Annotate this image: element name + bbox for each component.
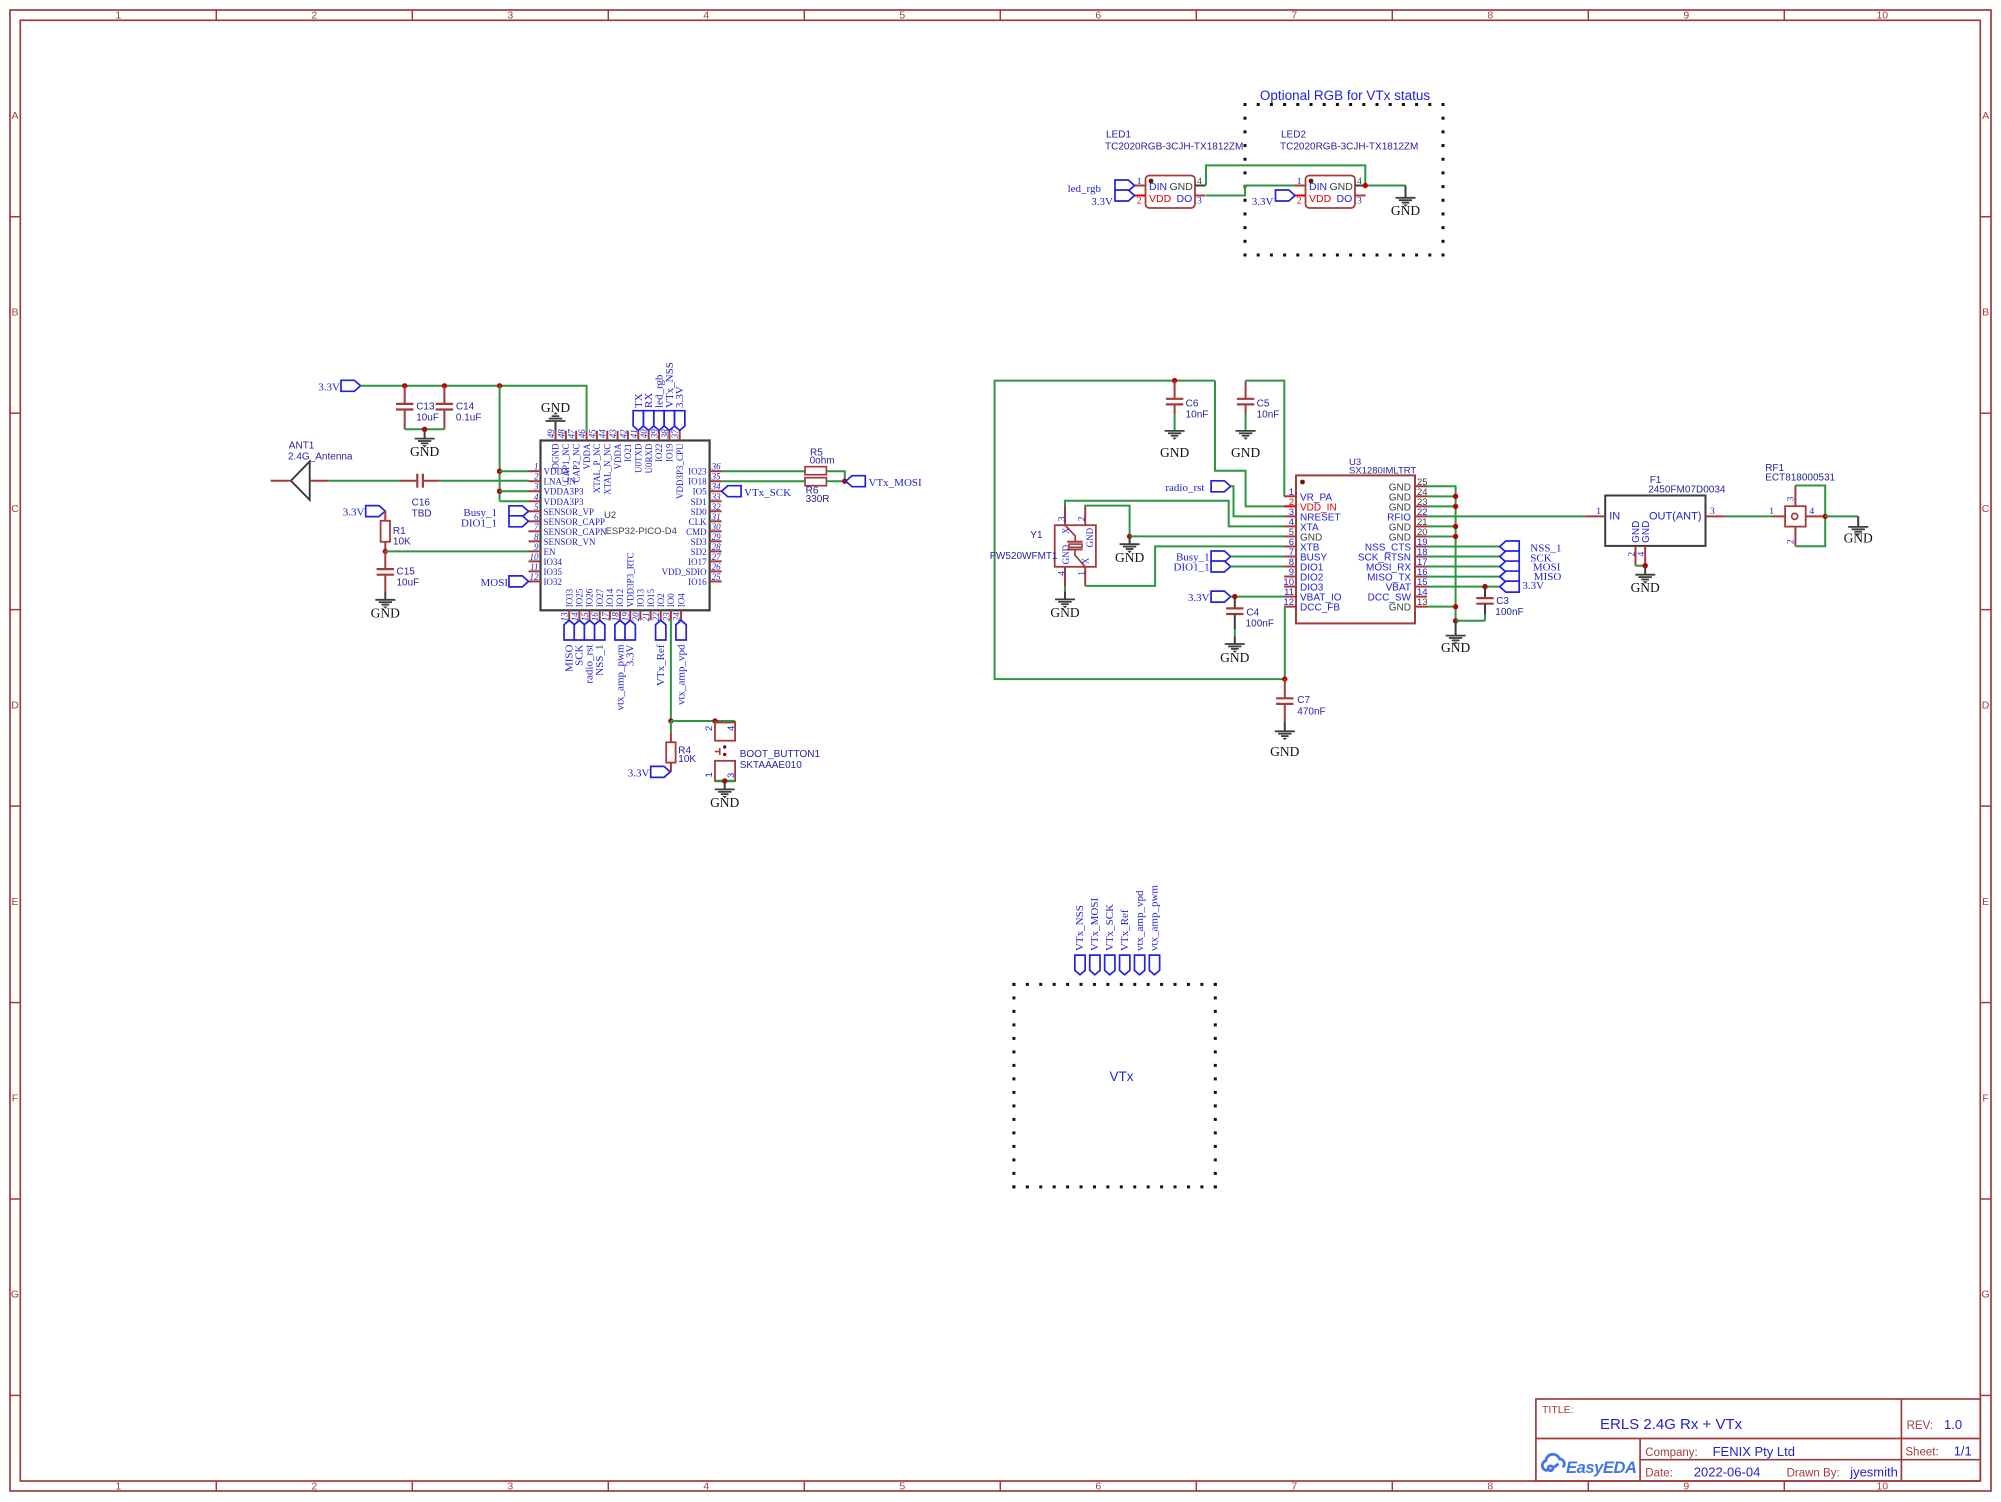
svg-text:IO0: IO0 <box>666 593 676 607</box>
svg-text:GND: GND <box>710 795 739 810</box>
svg-text:6: 6 <box>1095 10 1101 22</box>
svg-text:1: 1 <box>704 772 715 777</box>
svg-text:radio_rst: radio_rst <box>1165 482 1204 494</box>
svg-text:1: 1 <box>115 1481 121 1493</box>
svg-text:FENIX Pty Ltd: FENIX Pty Ltd <box>1713 1444 1795 1459</box>
svg-text:2: 2 <box>1297 197 1302 207</box>
svg-text:4: 4 <box>1810 507 1815 517</box>
svg-text:IO19: IO19 <box>665 443 675 462</box>
svg-text:REV:: REV: <box>1907 1420 1933 1432</box>
svg-text:4: 4 <box>703 10 709 22</box>
svg-text:B: B <box>1982 306 1989 318</box>
svg-text:IO4: IO4 <box>676 593 686 607</box>
svg-text:F: F <box>12 1092 18 1104</box>
svg-text:4: 4 <box>703 1481 709 1493</box>
svg-text:7: 7 <box>1291 1481 1297 1493</box>
svg-text:4: 4 <box>1057 571 1067 576</box>
svg-text:6: 6 <box>1095 1481 1101 1493</box>
svg-text:IO23: IO23 <box>688 467 707 477</box>
svg-text:31: 31 <box>711 512 721 522</box>
svg-text:21: 21 <box>641 612 651 621</box>
svg-text:VTx_MOSI: VTx_MOSI <box>869 477 923 489</box>
svg-text:C7: C7 <box>1297 695 1310 706</box>
svg-text:28: 28 <box>712 542 722 552</box>
svg-text:IO5: IO5 <box>693 487 707 497</box>
svg-text:CLK: CLK <box>689 517 708 527</box>
svg-text:8: 8 <box>1487 1481 1493 1493</box>
svg-text:27: 27 <box>712 552 722 562</box>
svg-text:1: 1 <box>1078 571 1088 576</box>
svg-text:SD1: SD1 <box>691 497 707 507</box>
svg-text:GND: GND <box>1115 550 1144 565</box>
svg-text:C: C <box>1982 503 1990 515</box>
svg-text:3.3V: 3.3V <box>628 767 650 779</box>
svg-text:14: 14 <box>570 612 580 622</box>
svg-text:3: 3 <box>1787 496 1797 501</box>
svg-text:VTx: VTx <box>1109 1069 1133 1084</box>
svg-text:IO26: IO26 <box>585 588 595 607</box>
svg-text:VDD: VDD <box>1149 193 1172 205</box>
svg-text:23: 23 <box>661 612 671 622</box>
svg-text:jyesmith: jyesmith <box>1849 1464 1898 1479</box>
svg-text:3: 3 <box>533 482 539 492</box>
svg-text:NSS_1: NSS_1 <box>594 645 606 676</box>
svg-text:VTx_NSS: VTx_NSS <box>1074 905 1086 951</box>
svg-text:VTx_SCK: VTx_SCK <box>744 487 791 499</box>
svg-text:GND: GND <box>1170 181 1194 193</box>
svg-text:10uF: 10uF <box>397 578 420 589</box>
svg-text:IO18: IO18 <box>688 477 707 487</box>
svg-text:9: 9 <box>534 542 539 552</box>
svg-text:1/1: 1/1 <box>1954 1444 1972 1459</box>
svg-text:C6: C6 <box>1186 399 1199 410</box>
svg-text:IO32: IO32 <box>544 577 563 587</box>
svg-text:DGND: DGND <box>551 443 561 469</box>
svg-text:VTx_SCK: VTx_SCK <box>1104 904 1116 951</box>
svg-text:4: 4 <box>1637 552 1647 557</box>
svg-text:FW520WFMT1: FW520WFMT1 <box>990 551 1058 562</box>
svg-text:C14: C14 <box>456 402 475 413</box>
svg-text:470nF: 470nF <box>1297 707 1325 718</box>
svg-text:33: 33 <box>711 492 722 502</box>
svg-text:SKTAAAE010: SKTAAAE010 <box>740 760 803 771</box>
svg-text:20: 20 <box>631 612 641 622</box>
svg-text:1: 1 <box>1596 507 1601 517</box>
svg-text:2: 2 <box>1137 197 1142 207</box>
svg-text:1.0: 1.0 <box>1944 1417 1962 1432</box>
svg-text:9: 9 <box>1683 1481 1689 1493</box>
svg-text:vtx_amp_vpd: vtx_amp_vpd <box>1134 890 1146 951</box>
svg-text:DIO1_1: DIO1_1 <box>1174 562 1210 574</box>
svg-text:34: 34 <box>711 482 722 492</box>
svg-text:SENSOR_CAPP: SENSOR_CAPP <box>544 517 606 527</box>
svg-text:15: 15 <box>580 612 590 622</box>
svg-text:IO2: IO2 <box>656 593 666 607</box>
svg-text:C3: C3 <box>1496 596 1509 607</box>
svg-text:C5: C5 <box>1257 399 1270 410</box>
svg-text:VDD3P3_RTC: VDD3P3_RTC <box>625 552 635 607</box>
svg-text:U2: U2 <box>604 510 616 521</box>
svg-text:vtx_amp_vpd: vtx_amp_vpd <box>675 644 687 705</box>
svg-text:GND: GND <box>371 606 400 621</box>
svg-text:C13: C13 <box>416 402 435 413</box>
svg-text:GND: GND <box>1844 530 1873 545</box>
svg-text:IO15: IO15 <box>646 588 656 607</box>
svg-text:ANT1: ANT1 <box>289 441 315 452</box>
svg-text:3.3V: 3.3V <box>343 507 365 519</box>
svg-text:3.3V: 3.3V <box>674 386 686 408</box>
svg-text:GND: GND <box>1160 445 1189 460</box>
svg-text:3: 3 <box>726 773 737 778</box>
svg-text:2: 2 <box>1627 552 1637 557</box>
svg-text:22: 22 <box>651 612 661 622</box>
svg-text:SD3: SD3 <box>691 537 708 547</box>
svg-text:8: 8 <box>534 532 539 542</box>
svg-text:3.3V: 3.3V <box>1522 580 1544 592</box>
svg-text:2.4G_Antenna: 2.4G_Antenna <box>288 452 353 463</box>
svg-text:VDD: VDD <box>1309 193 1332 205</box>
svg-text:3: 3 <box>1357 197 1362 207</box>
svg-text:EasyEDA: EasyEDA <box>1566 1459 1637 1477</box>
svg-text:3.3V: 3.3V <box>318 381 340 393</box>
svg-text:IO34: IO34 <box>544 557 563 567</box>
svg-text:43: 43 <box>608 429 618 439</box>
svg-text:2: 2 <box>1078 516 1088 521</box>
svg-text:A: A <box>11 110 18 122</box>
svg-text:GND: GND <box>1231 445 1260 460</box>
svg-text:1: 1 <box>1137 177 1142 187</box>
svg-text:1: 1 <box>534 462 539 472</box>
svg-text:45: 45 <box>587 429 597 439</box>
svg-text:CAP1_NC: CAP1_NC <box>561 444 571 483</box>
svg-text:XTAL_N_NC: XTAL_N_NC <box>602 444 612 495</box>
svg-text:3: 3 <box>1710 507 1715 517</box>
svg-text:100nF: 100nF <box>1246 619 1274 630</box>
svg-text:0.1uF: 0.1uF <box>456 413 482 424</box>
svg-text:SD0: SD0 <box>691 507 708 517</box>
svg-text:DCC_FB: DCC_FB <box>1300 603 1340 614</box>
svg-text:EN: EN <box>544 547 556 557</box>
svg-text:1: 1 <box>1769 507 1774 517</box>
svg-text:XTAL_P_NC: XTAL_P_NC <box>592 444 602 494</box>
svg-text:VTx_Ref: VTx_Ref <box>1119 909 1131 951</box>
svg-text:TC2020RGB-3CJH-TX1812ZM: TC2020RGB-3CJH-TX1812ZM <box>1105 142 1243 153</box>
svg-text:GND: GND <box>541 400 570 415</box>
svg-text:3: 3 <box>507 1481 513 1493</box>
svg-text:GND: GND <box>1220 650 1249 665</box>
svg-text:ERLS 2.4G Rx + VTx: ERLS 2.4G Rx + VTx <box>1600 1416 1743 1433</box>
svg-text:GND: GND <box>1441 640 1470 655</box>
svg-text:2: 2 <box>311 1481 317 1493</box>
svg-text:1: 1 <box>115 10 121 22</box>
svg-text:GND: GND <box>1061 544 1071 564</box>
svg-text:F: F <box>1982 1092 1988 1104</box>
svg-text:30: 30 <box>711 522 722 532</box>
svg-text:3: 3 <box>507 10 513 22</box>
svg-text:TITLE:: TITLE: <box>1542 1404 1574 1416</box>
svg-text:BOOT_BUTTON1: BOOT_BUTTON1 <box>740 749 821 760</box>
svg-text:DIO1_1: DIO1_1 <box>461 517 497 529</box>
svg-text:SENSOR_CAPN: SENSOR_CAPN <box>544 527 608 537</box>
svg-text:10nF: 10nF <box>1186 410 1209 421</box>
svg-text:GND: GND <box>1330 181 1354 193</box>
svg-text:IO35: IO35 <box>544 567 563 577</box>
svg-text:44: 44 <box>598 429 608 439</box>
svg-text:D: D <box>11 699 19 711</box>
svg-text:10uF: 10uF <box>416 413 439 424</box>
svg-text:led_rgb: led_rgb <box>1068 183 1102 195</box>
svg-text:IO33: IO33 <box>564 588 574 607</box>
svg-text:D: D <box>1982 699 1990 711</box>
svg-text:VDD3P3_CPU: VDD3P3_CPU <box>675 443 685 499</box>
svg-text:1: 1 <box>1297 177 1302 187</box>
svg-text:VDDA3P3: VDDA3P3 <box>544 497 585 507</box>
svg-text:10nF: 10nF <box>1257 410 1280 421</box>
svg-text:OUT(ANT): OUT(ANT) <box>1649 511 1702 523</box>
svg-text:C: C <box>11 503 19 515</box>
svg-text:4: 4 <box>726 726 737 731</box>
svg-text:13: 13 <box>560 612 570 622</box>
svg-text:GND: GND <box>1050 605 1079 620</box>
svg-text:5: 5 <box>534 502 539 512</box>
svg-text:VDDA: VDDA <box>582 443 592 469</box>
svg-text:E: E <box>11 896 18 908</box>
svg-text:G: G <box>1982 1289 1990 1301</box>
svg-text:GND: GND <box>1631 580 1660 595</box>
svg-text:IO13: IO13 <box>636 588 646 607</box>
svg-text:X: X <box>1080 557 1090 564</box>
svg-text:2: 2 <box>704 726 715 731</box>
svg-text:MOSI: MOSI <box>480 577 508 589</box>
svg-text:R1: R1 <box>393 526 406 537</box>
svg-text:ESP32-PICO-D4: ESP32-PICO-D4 <box>606 526 677 537</box>
svg-text:ECT818000531: ECT818000531 <box>1765 473 1835 484</box>
svg-text:3.3V: 3.3V <box>1188 592 1210 604</box>
svg-text:6: 6 <box>534 512 539 522</box>
svg-text:GND: GND <box>1270 744 1299 759</box>
svg-text:330R: 330R <box>806 494 830 505</box>
svg-text:SX1280IMLTRT: SX1280IMLTRT <box>1349 466 1416 477</box>
svg-text:Company:: Company: <box>1645 1447 1697 1459</box>
svg-text:36: 36 <box>711 462 722 472</box>
svg-text:2: 2 <box>311 10 317 22</box>
svg-text:5: 5 <box>899 10 905 22</box>
svg-text:32: 32 <box>711 502 722 512</box>
svg-text:IO22: IO22 <box>654 444 664 463</box>
svg-text:17: 17 <box>600 612 610 622</box>
svg-text:13: 13 <box>1417 597 1428 608</box>
svg-text:2022-06-04: 2022-06-04 <box>1694 1464 1761 1479</box>
svg-text:10: 10 <box>1876 10 1888 22</box>
svg-text:B: B <box>11 306 18 318</box>
svg-text:A: A <box>1982 110 1989 122</box>
svg-text:10K: 10K <box>678 754 696 765</box>
svg-text:Optional RGB for VTx status: Optional RGB for VTx status <box>1260 88 1431 103</box>
svg-text:26: 26 <box>712 562 722 572</box>
svg-text:U0RXD: U0RXD <box>644 443 654 474</box>
svg-text:DIN: DIN <box>1149 181 1167 193</box>
svg-text:29: 29 <box>712 532 722 542</box>
svg-text:4: 4 <box>1197 177 1202 187</box>
svg-text:3.3V: 3.3V <box>624 644 636 666</box>
svg-text:42: 42 <box>618 429 628 439</box>
svg-text:U0TXD: U0TXD <box>634 443 644 473</box>
svg-text:8: 8 <box>1487 10 1493 22</box>
svg-text:35: 35 <box>711 472 722 482</box>
svg-text:vtx_amp_pwm: vtx_amp_pwm <box>1149 885 1161 951</box>
svg-text:7: 7 <box>534 522 539 532</box>
svg-text:10K: 10K <box>393 537 411 548</box>
svg-text:VDD_SDIO: VDD_SDIO <box>662 567 708 577</box>
svg-text:X: X <box>1061 527 1071 534</box>
svg-text:VTx_Ref: VTx_Ref <box>655 644 667 686</box>
svg-text:18: 18 <box>611 612 621 622</box>
svg-text:100nF: 100nF <box>1495 607 1523 618</box>
svg-text:DO: DO <box>1337 193 1353 205</box>
svg-text:5: 5 <box>899 1481 905 1493</box>
svg-text:3.3V: 3.3V <box>1252 196 1274 208</box>
svg-text:IO21: IO21 <box>623 444 633 463</box>
svg-text:46: 46 <box>577 429 587 439</box>
svg-text:Sheet:: Sheet: <box>1905 1447 1938 1459</box>
svg-text:7: 7 <box>1291 10 1297 22</box>
svg-text:GND: GND <box>1085 527 1095 547</box>
svg-text:10: 10 <box>1876 1481 1888 1493</box>
svg-text:24: 24 <box>672 612 682 622</box>
svg-text:GND: GND <box>1391 203 1420 218</box>
svg-text:12: 12 <box>530 572 540 582</box>
svg-text:2: 2 <box>1787 539 1797 544</box>
svg-text:47: 47 <box>567 429 577 439</box>
svg-text:GND: GND <box>1389 603 1411 614</box>
svg-text:CAP2_NC: CAP2_NC <box>571 444 581 483</box>
svg-text:10: 10 <box>530 552 540 562</box>
svg-text:2: 2 <box>534 472 539 482</box>
svg-text:LED2: LED2 <box>1281 130 1306 141</box>
svg-text:IO17: IO17 <box>688 557 707 567</box>
svg-text:C15: C15 <box>397 567 416 578</box>
svg-text:IO16: IO16 <box>688 577 707 587</box>
svg-text:4: 4 <box>534 492 539 502</box>
svg-text:48: 48 <box>556 429 566 439</box>
svg-text:VDDA: VDDA <box>613 443 623 469</box>
svg-text:4: 4 <box>1357 177 1362 187</box>
svg-text:C4: C4 <box>1246 608 1259 619</box>
svg-text:SENSOR_VP: SENSOR_VP <box>544 507 595 517</box>
svg-text:19: 19 <box>621 612 631 622</box>
svg-text:Date:: Date: <box>1645 1467 1673 1479</box>
svg-text:LED1: LED1 <box>1106 130 1131 141</box>
svg-text:12: 12 <box>1283 597 1294 608</box>
svg-text:GND: GND <box>1641 521 1652 543</box>
svg-text:VDDA3P3: VDDA3P3 <box>544 487 585 497</box>
svg-text:GND: GND <box>410 444 439 459</box>
svg-text:SENSOR_VN: SENSOR_VN <box>544 537 597 547</box>
svg-text:IO25: IO25 <box>575 588 585 607</box>
svg-text:0ohm: 0ohm <box>810 456 835 467</box>
svg-text:2450FM07D0034: 2450FM07D0034 <box>1648 484 1726 495</box>
svg-text:CMD: CMD <box>686 527 707 537</box>
svg-text:Drawn By:: Drawn By: <box>1787 1467 1840 1479</box>
svg-text:16: 16 <box>590 612 600 622</box>
svg-text:TC2020RGB-3CJH-TX1812ZM: TC2020RGB-3CJH-TX1812ZM <box>1280 142 1418 153</box>
svg-text:G: G <box>11 1289 19 1301</box>
svg-text:Y1: Y1 <box>1030 530 1043 541</box>
svg-text:3: 3 <box>1057 516 1067 521</box>
svg-text:IO12: IO12 <box>615 589 625 608</box>
svg-text:11: 11 <box>530 562 538 572</box>
svg-text:DO: DO <box>1177 193 1193 205</box>
svg-text:3: 3 <box>1197 197 1202 207</box>
svg-text:C16: C16 <box>412 498 431 509</box>
svg-text:TBD: TBD <box>412 509 432 520</box>
svg-text:25: 25 <box>712 572 722 582</box>
svg-text:E: E <box>1982 896 1989 908</box>
svg-text:SD2: SD2 <box>691 547 707 557</box>
svg-text:3.3V: 3.3V <box>1091 196 1113 208</box>
svg-text:9: 9 <box>1683 10 1689 22</box>
svg-text:DIN: DIN <box>1309 181 1327 193</box>
svg-text:IN: IN <box>1609 511 1620 523</box>
svg-text:IO14: IO14 <box>605 588 615 607</box>
svg-text:VTx_MOSI: VTx_MOSI <box>1089 897 1101 951</box>
svg-text:IO27: IO27 <box>595 588 605 607</box>
